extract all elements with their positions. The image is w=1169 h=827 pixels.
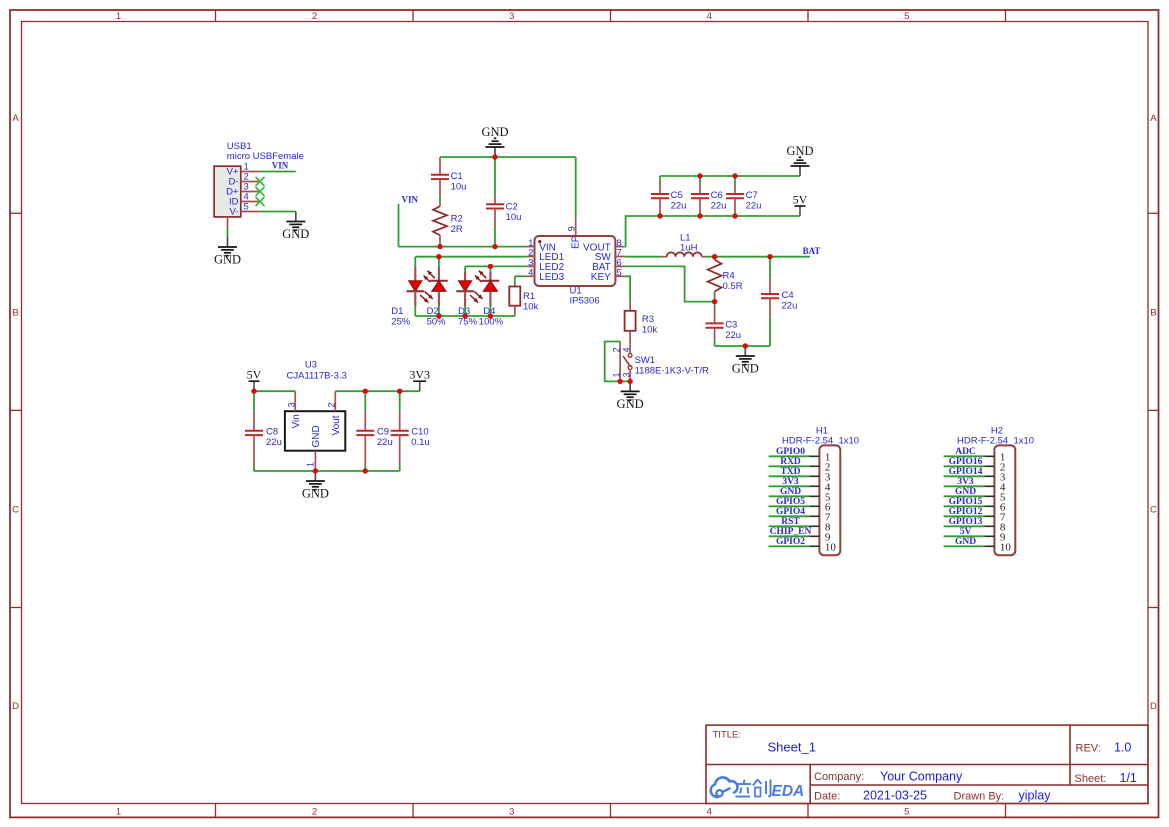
led D2 arrows	[424, 271, 435, 282]
resistor R3	[625, 302, 636, 354]
junction C6 top	[697, 173, 702, 178]
wire H1 pin 1	[769, 455, 810, 457]
H2 pin 6 stub	[984, 505, 994, 507]
capacitor C2	[486, 196, 504, 227]
junction SW1 pin3	[627, 379, 632, 384]
H1 pin 2 stub	[809, 465, 819, 467]
svg-text:3: 3	[286, 402, 296, 407]
wire gnd to C2	[494, 157, 496, 196]
wire C1 to R2	[439, 197, 441, 202]
svg-text:3V3: 3V3	[409, 368, 430, 382]
junction bus D3	[462, 313, 467, 318]
svg-text:2: 2	[312, 807, 317, 818]
svg-text:9: 9	[567, 226, 578, 231]
svg-text:5V: 5V	[793, 193, 808, 207]
wire pin6 bat to R4 bottom	[624, 266, 714, 301]
connector USB1 micro USBFemale	[214, 161, 260, 228]
svg-text:IP5306: IP5306	[570, 296, 600, 307]
svg-text:Company:: Company:	[814, 771, 864, 783]
svg-text:5V: 5V	[247, 368, 262, 382]
capacitor C7	[726, 176, 744, 216]
ground at USB pin5	[282, 212, 309, 242]
svg-text:Vout: Vout	[331, 415, 342, 435]
capacitor C8	[245, 391, 263, 471]
wire H2 pin 1	[944, 455, 985, 457]
svg-text:KEY: KEY	[591, 272, 611, 283]
capacitor C4	[761, 257, 779, 346]
svg-text:CHIP_EN: CHIP_EN	[770, 527, 812, 537]
H1 pin 9 stub	[809, 535, 819, 537]
svg-text:22u: 22u	[377, 437, 393, 448]
ground at C3/C4	[732, 346, 759, 376]
wire LED2 row	[465, 265, 525, 267]
svg-text:5V: 5V	[960, 527, 972, 537]
svg-text:3: 3	[509, 807, 514, 818]
svg-text:5: 5	[244, 201, 249, 212]
wire H2 pin 3	[944, 475, 985, 477]
H1 pin 3 stub	[809, 475, 819, 477]
connector H1 HDR-F-2.54_1x10	[819, 445, 840, 555]
svg-text:22u: 22u	[746, 201, 762, 212]
svg-text:A: A	[12, 113, 19, 124]
U3 pin3 Vin	[286, 391, 302, 428]
pin 9 EP	[575, 217, 577, 236]
ground at U3	[302, 471, 329, 501]
svg-text:C6: C6	[711, 190, 723, 201]
junction C9 bottom	[363, 468, 368, 473]
no-connect X pin4	[256, 197, 265, 206]
svg-text:C8: C8	[266, 427, 278, 438]
svg-text:EDA: EDA	[772, 783, 805, 800]
svg-text:1.0: 1.0	[1114, 741, 1131, 755]
junction C7 top	[732, 173, 737, 178]
inductor L1	[662, 252, 706, 256]
svg-text:R2: R2	[451, 213, 463, 224]
junction C6 bottom	[697, 213, 702, 218]
H2 pin 3 stub	[984, 475, 994, 477]
junction R4/C3	[712, 299, 717, 304]
resistor R1	[509, 284, 520, 314]
junction vin R2	[437, 244, 442, 249]
H1 pin 7 stub	[809, 515, 819, 517]
ground flag right	[786, 144, 813, 176]
H1 pin 6 stub	[809, 505, 819, 507]
led D1 arrows	[420, 291, 433, 302]
wire pin7 sw to L1	[624, 256, 662, 258]
svg-text:5: 5	[617, 268, 622, 279]
svg-text:C5: C5	[671, 190, 683, 201]
U1 right pins	[583, 238, 624, 283]
svg-text:1: 1	[611, 372, 621, 377]
svg-text:SW1: SW1	[635, 355, 656, 366]
capacitor C5	[651, 176, 669, 216]
wire H1 pin 7	[769, 515, 810, 517]
wire USB pin5 to ground	[260, 211, 296, 213]
svg-text:D1: D1	[391, 306, 403, 317]
wire VIN from USB pin1	[260, 171, 296, 173]
led D2	[430, 257, 448, 306]
U1 left pins	[526, 238, 565, 283]
led D3	[456, 266, 474, 306]
H2 pin 5 stub	[984, 495, 994, 497]
H2 pin 2 stub	[984, 465, 994, 467]
svg-text:B: B	[1150, 307, 1156, 318]
svg-text:VIN: VIN	[272, 160, 289, 170]
svg-text:3: 3	[509, 11, 514, 22]
wire H2 pin 5	[944, 495, 985, 497]
svg-text:C: C	[12, 505, 19, 516]
capacitor C6	[691, 176, 709, 216]
svg-text:GND: GND	[617, 397, 644, 411]
svg-text:25%: 25%	[391, 317, 411, 328]
junction gnd bottom	[743, 343, 748, 348]
svg-text:5: 5	[904, 11, 909, 22]
led D4 arrows	[475, 271, 486, 282]
no-connect X pin3	[256, 187, 265, 196]
svg-text:U3: U3	[305, 360, 317, 371]
capacitor C1	[431, 157, 449, 197]
svg-text:RXD: RXD	[780, 457, 801, 467]
wire H2 pin 7	[944, 515, 985, 517]
svg-text:22u: 22u	[671, 201, 687, 212]
H2 pin 4 stub	[984, 485, 994, 487]
logo text 立创	[736, 780, 771, 797]
svg-text:1188E-1K3-V-T/R: 1188E-1K3-V-T/R	[635, 366, 709, 377]
svg-text:GPIO5: GPIO5	[776, 497, 805, 507]
ground flag top	[481, 125, 508, 157]
wire R2 to vin bus	[439, 243, 441, 247]
svg-text:0.5R: 0.5R	[723, 281, 743, 292]
svg-text:GND: GND	[481, 125, 508, 139]
capacitor C3	[706, 302, 724, 346]
resistor R4	[708, 257, 722, 302]
wire H2 pin 4	[944, 485, 985, 487]
junction vin C2	[492, 244, 497, 249]
no-connect X pin2	[256, 177, 265, 186]
wire H1 pin 10	[769, 545, 810, 547]
svg-text:GND: GND	[282, 227, 309, 241]
svg-text:HDR-F-2.54_1x10: HDR-F-2.54_1x10	[957, 435, 1034, 446]
svg-text:yiplay: yiplay	[1019, 789, 1052, 803]
svg-text:Date:: Date:	[814, 791, 840, 803]
wire H1 pin 3	[769, 475, 810, 477]
svg-text:4: 4	[707, 11, 712, 22]
svg-text:C4: C4	[782, 290, 794, 301]
svg-text:1: 1	[116, 807, 121, 818]
svg-text:GPIO14: GPIO14	[949, 467, 983, 477]
led D4	[482, 266, 500, 306]
H2 pin 9 stub	[984, 535, 994, 537]
wire H1 pin 2	[769, 465, 810, 467]
junction C9 top	[363, 389, 368, 394]
wire H1 pin 4	[769, 485, 810, 487]
H2 pin 10 stub	[984, 545, 994, 547]
svg-text:3V3: 3V3	[782, 477, 799, 487]
svg-text:A: A	[1150, 113, 1157, 124]
svg-text:GND: GND	[955, 537, 976, 547]
svg-text:HDR-F-2.54_1x10: HDR-F-2.54_1x10	[782, 435, 859, 446]
svg-text:10u: 10u	[451, 182, 467, 193]
svg-text:C2: C2	[506, 202, 518, 213]
svg-text:2021-03-25: 2021-03-25	[863, 789, 927, 803]
wire top gnd bus	[440, 156, 576, 158]
wire R1 to bus	[514, 314, 516, 317]
wire 5V to U3 pin3	[254, 390, 295, 392]
capacitor C10	[391, 391, 409, 471]
wire H1 pin 5	[769, 495, 810, 497]
svg-text:VIN: VIN	[402, 195, 419, 205]
wire H2 pin 10	[944, 545, 985, 547]
svg-text:GPIO0: GPIO0	[776, 447, 805, 457]
svg-text:C3: C3	[725, 320, 737, 331]
svg-text:C1: C1	[451, 171, 463, 182]
wire H2 pin 8	[944, 525, 985, 527]
junction C8 top	[251, 389, 256, 394]
wire pin5 key to R3	[624, 276, 630, 301]
led D3 arrows	[470, 291, 483, 302]
power flag 3V3	[409, 368, 430, 392]
junction SW1 pin1	[617, 379, 622, 384]
wire gnd to EP pin9	[575, 157, 577, 217]
svg-text:Your Company: Your Company	[880, 770, 963, 784]
wire C2 to vin bus	[494, 226, 496, 246]
svg-text:RST: RST	[781, 517, 800, 527]
junction U3 pin1	[313, 468, 318, 473]
svg-text:REV:: REV:	[1076, 743, 1101, 755]
junction C7 bottom	[732, 213, 737, 218]
svg-text:3V3: 3V3	[957, 477, 974, 487]
svg-text:GPIO12: GPIO12	[949, 507, 983, 517]
junction bus D4	[488, 313, 493, 318]
wire H2 pin 2	[944, 465, 985, 467]
U3 pin2 Vout	[327, 391, 343, 435]
wire LED1 row	[415, 256, 525, 258]
svg-text:22u: 22u	[782, 300, 798, 311]
wire LED3 row	[515, 275, 526, 277]
svg-text:Drawn By:: Drawn By:	[954, 791, 1005, 803]
svg-text:CJA1117B-3.3: CJA1117B-3.3	[287, 370, 347, 381]
junction C5 bottom	[657, 213, 662, 218]
H1 pin 4 stub	[809, 485, 819, 487]
connector H2 HDR-F-2.54_1x10	[994, 445, 1015, 555]
resistor R2	[433, 201, 447, 243]
svg-text:4: 4	[621, 347, 631, 352]
svg-text:C9: C9	[377, 427, 389, 438]
svg-text:BAT: BAT	[803, 246, 821, 256]
svg-text:10k: 10k	[642, 325, 658, 336]
svg-text:10: 10	[1000, 542, 1012, 554]
svg-text:B: B	[12, 307, 18, 318]
svg-text:ADC: ADC	[955, 447, 976, 457]
wire led bottom bus	[415, 315, 515, 317]
ground at SW1	[617, 381, 644, 411]
H1 pin 1 stub	[809, 455, 819, 457]
junction LED1 D2	[436, 254, 441, 259]
svg-text:22u: 22u	[266, 437, 282, 448]
svg-text:4: 4	[528, 268, 533, 279]
ic U1 IP5306 box	[535, 236, 616, 286]
wire L1 to BAT	[706, 256, 811, 258]
svg-text:GND: GND	[302, 487, 329, 501]
svg-text:LED3: LED3	[539, 272, 564, 283]
svg-text:GND: GND	[732, 362, 759, 376]
wire H1 pin 9	[769, 535, 810, 537]
wire U3 pin2 to 3V3	[335, 390, 419, 392]
svg-text:GPIO13: GPIO13	[949, 517, 983, 527]
junction C10 top	[397, 389, 402, 394]
frame row ticks and labels	[10, 113, 1159, 712]
wire H1 pin 8	[769, 525, 810, 527]
svg-text:TXD: TXD	[780, 467, 800, 477]
svg-text:2R: 2R	[451, 224, 463, 235]
svg-text:10: 10	[825, 542, 837, 554]
svg-text:3: 3	[621, 372, 631, 377]
wire H2 pin 6	[944, 505, 985, 507]
svg-text:1uH: 1uH	[680, 242, 698, 253]
svg-text:EP: EP	[571, 235, 582, 249]
svg-text:22u: 22u	[711, 201, 727, 212]
wire pin4 to R1	[514, 276, 516, 283]
H2 pin 7 stub	[984, 515, 994, 517]
junction bus D2	[436, 313, 441, 318]
svg-text:Vin: Vin	[291, 414, 302, 428]
svg-text:GND: GND	[311, 425, 322, 447]
title block texts	[713, 730, 1137, 803]
wire vin vertical	[398, 204, 400, 247]
svg-text:V-: V-	[230, 207, 239, 218]
svg-text:1/1: 1/1	[1120, 771, 1137, 785]
wire pin8 vout up to cap bus	[624, 216, 800, 247]
wire U3 gnd bus	[254, 470, 400, 472]
wire C3/C4 bottom bus	[715, 345, 770, 347]
svg-text:R4: R4	[723, 270, 735, 281]
svg-text:R3: R3	[642, 314, 654, 325]
led D1	[407, 257, 425, 306]
svg-text:TITLE:: TITLE:	[713, 730, 742, 741]
H1 pin 8 stub	[809, 525, 819, 527]
junction R4 top	[712, 254, 717, 259]
wire H2 pin 9	[944, 535, 985, 537]
svg-text:22u: 22u	[725, 330, 741, 341]
U3 pin1 GND	[306, 425, 323, 471]
H2 pin 1 stub	[984, 455, 994, 457]
junction C4 top	[767, 254, 772, 259]
svg-text:1: 1	[306, 462, 316, 467]
svg-text:GPIO4: GPIO4	[776, 507, 805, 517]
svg-text:4: 4	[707, 807, 712, 818]
H2 pin 8 stub	[984, 525, 994, 527]
svg-text:C7: C7	[746, 190, 758, 201]
svg-text:0.1u: 0.1u	[411, 437, 430, 448]
wire led bottoms	[414, 306, 416, 316]
svg-text:1: 1	[116, 11, 121, 22]
svg-text:GPIO16: GPIO16	[949, 457, 983, 467]
svg-text:C: C	[1150, 505, 1157, 516]
svg-text:D: D	[1150, 701, 1157, 712]
H1 pin 5 stub	[809, 495, 819, 497]
svg-text:50%: 50%	[427, 317, 447, 328]
svg-text:2: 2	[611, 347, 621, 352]
wire cap top bus	[660, 175, 800, 177]
svg-text:GND: GND	[780, 487, 801, 497]
wire vin bus to U1 pin1	[399, 246, 526, 248]
power flag 5V	[793, 193, 808, 217]
svg-text:GPIO15: GPIO15	[949, 497, 983, 507]
svg-text:2: 2	[327, 402, 337, 407]
frame column ticks and labels	[116, 10, 1006, 818]
switch SW1	[620, 342, 632, 382]
svg-text:GND: GND	[955, 487, 976, 497]
svg-text:D: D	[12, 701, 19, 712]
svg-text:2: 2	[312, 11, 317, 22]
ground at USB shield	[214, 237, 241, 267]
H1 pin 10 stub	[809, 545, 819, 547]
svg-text:C10: C10	[411, 427, 428, 438]
wire SW1 loop	[605, 342, 630, 382]
ic U3 CJA1117B-3.3 box	[285, 411, 345, 451]
junction LED2 D4	[488, 264, 493, 269]
junction top gnd at C2	[492, 154, 497, 159]
U1 pin1 marker dot	[538, 240, 541, 243]
wire H1 pin 6	[769, 505, 810, 507]
svg-text:5: 5	[904, 807, 909, 818]
svg-text:micro USBFemale: micro USBFemale	[227, 151, 304, 162]
capacitor C9	[356, 391, 374, 471]
title block outline	[706, 725, 1148, 803]
svg-text:Sheet_1: Sheet_1	[768, 740, 816, 755]
svg-text:GPIO2: GPIO2	[776, 537, 805, 547]
svg-text:10k: 10k	[523, 301, 539, 312]
svg-text:75%: 75%	[458, 317, 478, 328]
wire USB shield pin	[227, 228, 229, 237]
svg-text:10u: 10u	[506, 212, 522, 223]
power flag 5V at U3	[247, 368, 262, 392]
svg-text:GND: GND	[214, 253, 241, 267]
svg-text:Sheet:: Sheet:	[1075, 773, 1107, 785]
logo LCEDA cloud	[711, 777, 738, 797]
svg-text:GND: GND	[786, 144, 813, 158]
